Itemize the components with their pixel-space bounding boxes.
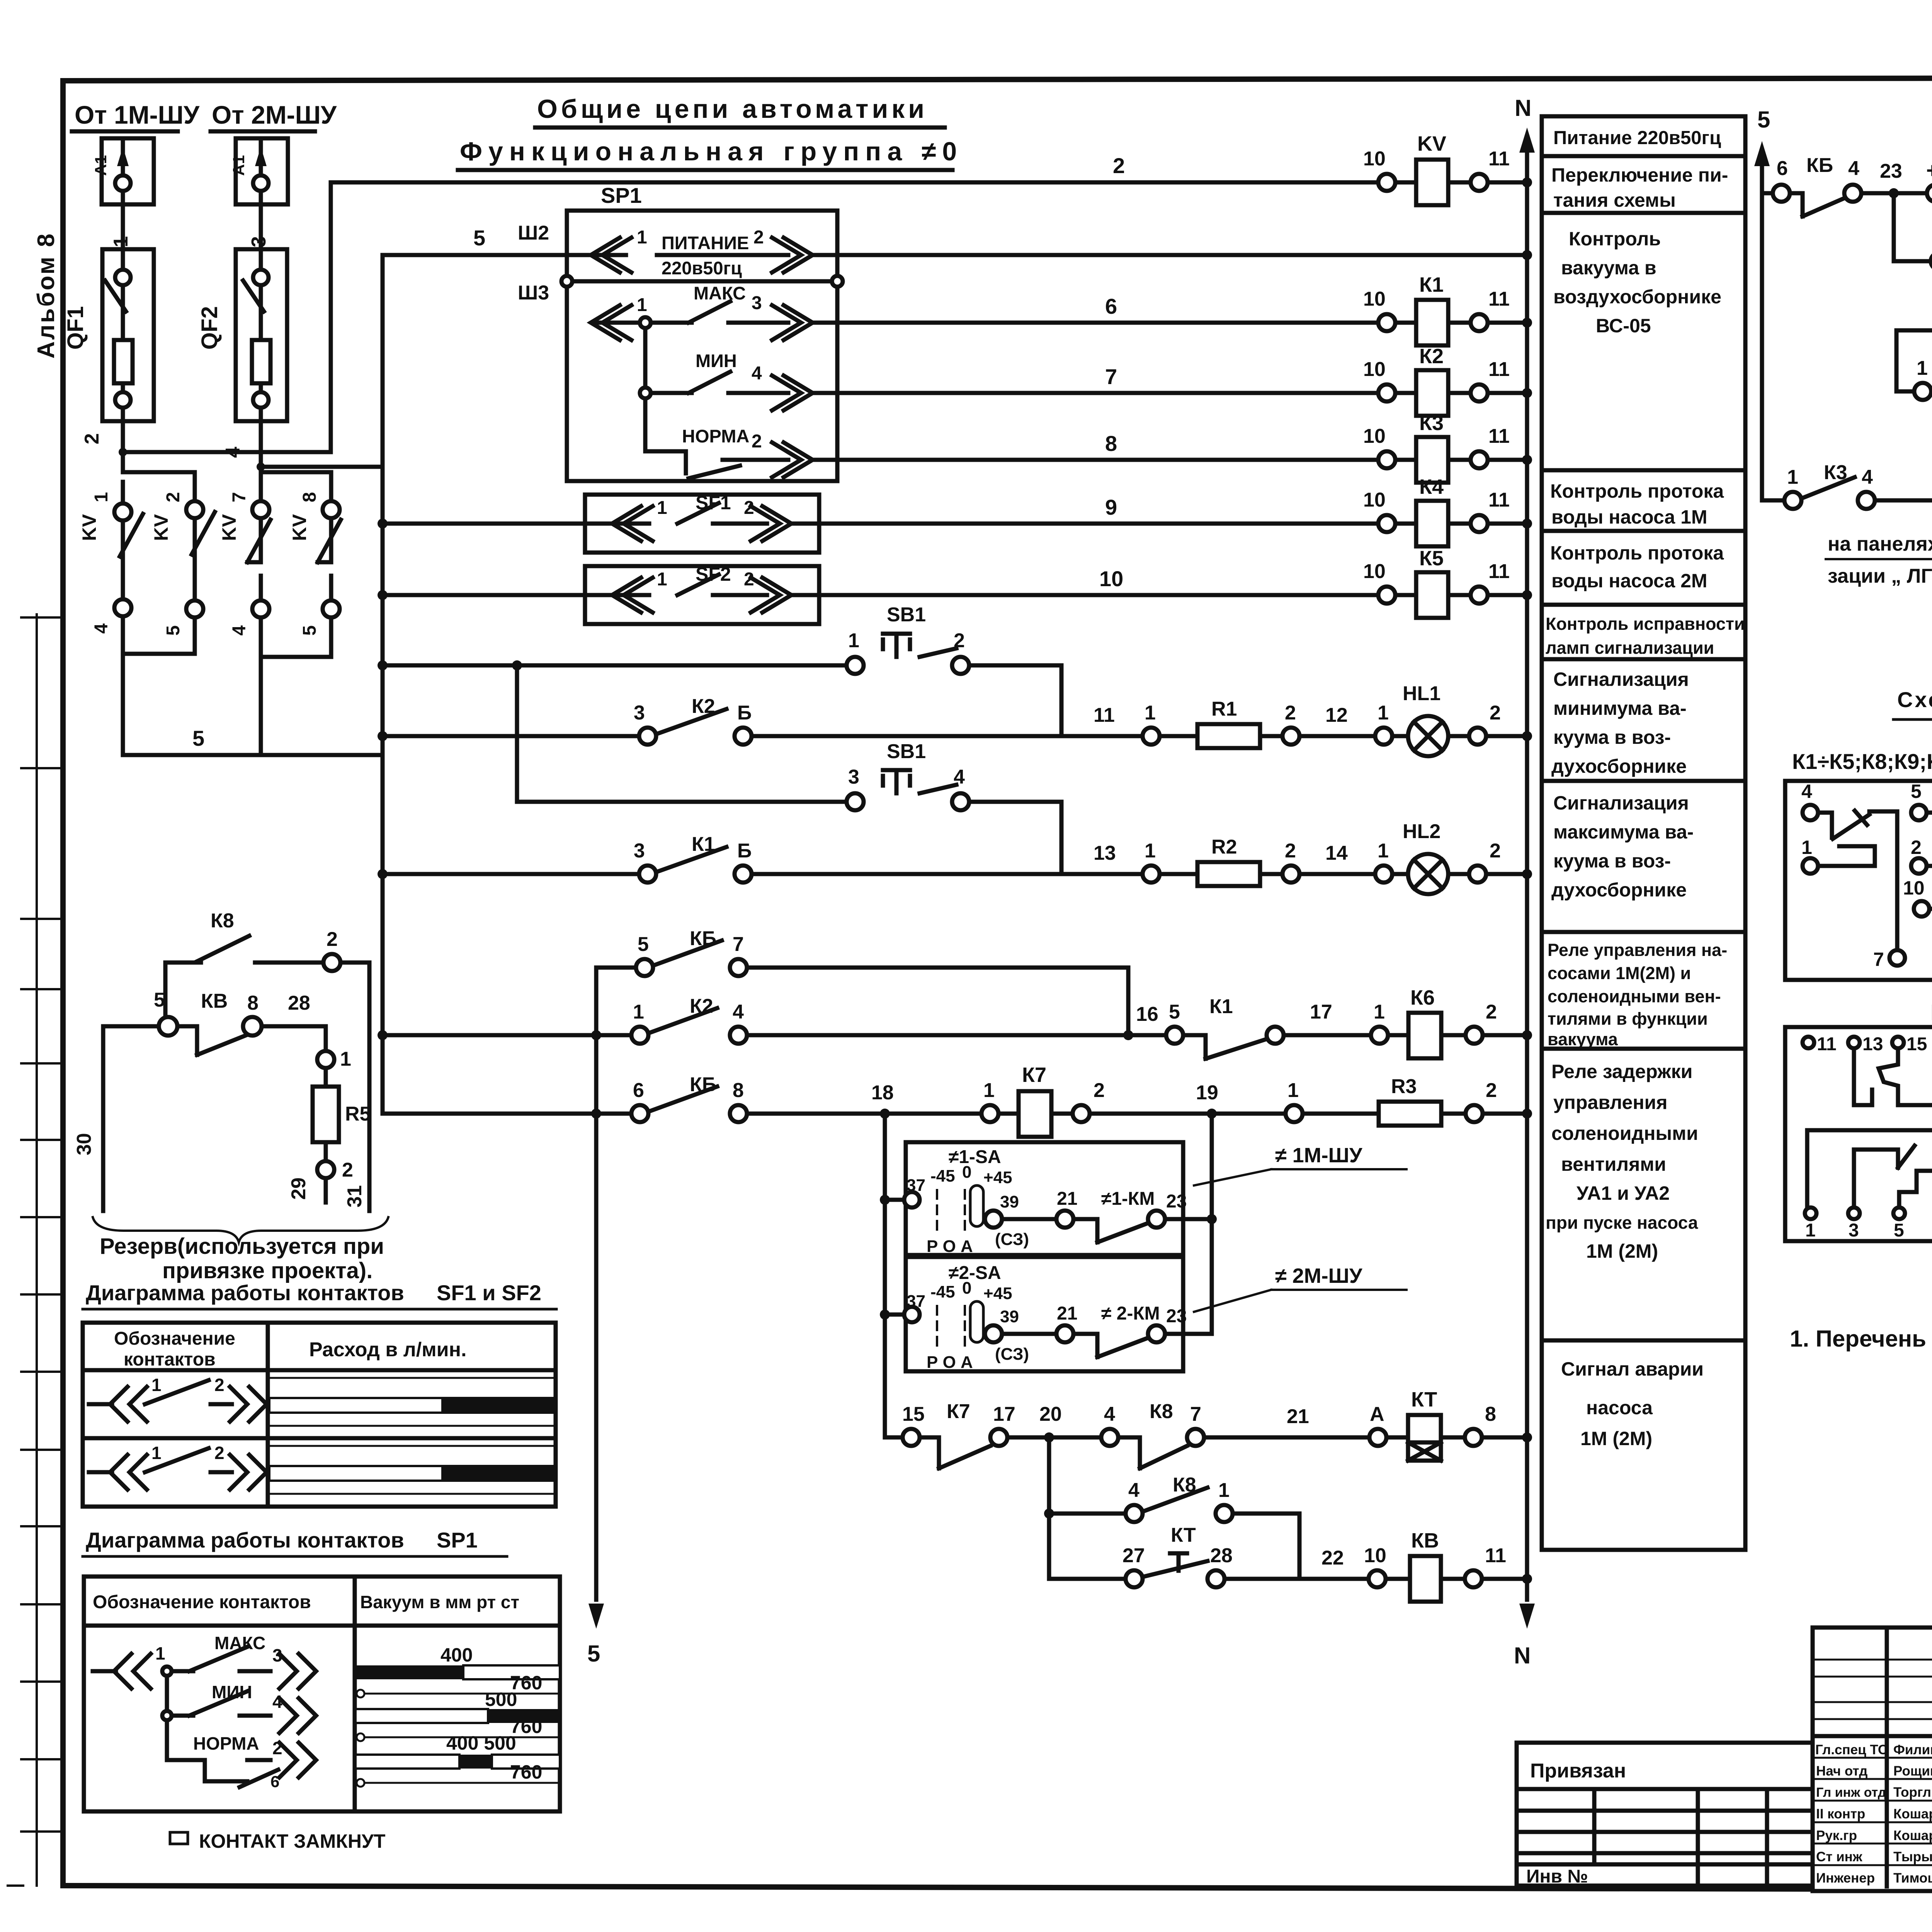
svg-text:11: 11 [1817, 1034, 1837, 1054]
svg-text:тилями в функции: тилями в функции [1548, 1009, 1708, 1029]
svg-text:Б: Б [737, 840, 752, 862]
svg-text:КОНТАКТ ЗАМКНУТ: КОНТАКТ ЗАМКНУТ [199, 1830, 386, 1852]
svg-text:12: 12 [1325, 704, 1348, 726]
relay coil KB [1386, 1577, 1410, 1581]
function column boxes [1542, 116, 1745, 1550]
svg-text:3: 3 [1849, 1220, 1859, 1241]
svg-text:вентилями: вентилями [1561, 1153, 1666, 1175]
svg-text:Кошаринова: Кошаринова [1893, 1828, 1932, 1843]
SF1 box [383, 492, 819, 553]
svg-text:SP1: SP1 [437, 1528, 478, 1552]
flow bar row2 [268, 1446, 556, 1494]
svg-text:Ш2: Ш2 [518, 222, 549, 244]
svg-text:1: 1 [1378, 702, 1389, 724]
svg-text:KV: KV [150, 514, 172, 541]
svg-text:400: 400 [440, 1644, 473, 1666]
rung wire 2 [331, 153, 1387, 182]
margin ticks [8, 614, 63, 1886]
feeder label От 1М-ШУ [72, 100, 200, 131]
heading диаграмма SF [83, 1281, 556, 1309]
rung K2 1-4 / K1 5-8 / coil K6 [378, 986, 1532, 1059]
resistor R1 [1160, 734, 1197, 738]
vertical dividers [1885, 1628, 1889, 1886]
svg-text:16: 16 [1136, 1003, 1158, 1026]
svg-text:Гл инж отд: Гл инж отд [1816, 1785, 1886, 1800]
svg-text:11: 11 [1485, 1544, 1506, 1567]
svg-text:10: 10 [1099, 566, 1123, 591]
svg-text:R3: R3 [1391, 1075, 1417, 1098]
title block [1813, 1628, 1932, 1891]
svg-text:1: 1 [983, 1079, 995, 1102]
node: function column texts [1546, 128, 1745, 1449]
rung wire 10 / relay coil K5 [378, 547, 1532, 618]
svg-text:10: 10 [1363, 425, 1386, 447]
svg-text:5: 5 [154, 989, 165, 1011]
svg-text:К2: К2 [1419, 345, 1444, 368]
svg-text:духосборнике: духосборнике [1551, 755, 1687, 777]
svg-text:-45: -45 [930, 1282, 955, 1301]
upper small rows [1813, 1659, 1932, 1661]
svg-text:Кошаринова: Кошаринова [1893, 1806, 1932, 1821]
svg-text:К1: К1 [1209, 995, 1233, 1018]
relay coil KT [1386, 1435, 1408, 1440]
svg-text:соленоидными вен-: соленоидными вен- [1548, 986, 1721, 1006]
svg-text:6: 6 [270, 1772, 279, 1791]
svg-text:А: А [1370, 1403, 1384, 1425]
pinout box К1-К5 [1785, 781, 1932, 980]
svg-text:2: 2 [1911, 837, 1922, 858]
svg-text:1: 1 [1378, 840, 1389, 862]
svg-text:5: 5 [638, 933, 649, 956]
svg-text:10: 10 [1363, 358, 1386, 381]
svg-text:минимума ва-: минимума ва- [1553, 697, 1687, 719]
svg-text:2: 2 [214, 1375, 224, 1395]
breaker QF1 [63, 249, 154, 421]
connector Ш3 line [518, 276, 843, 304]
pinout box К6 К7 [1785, 1027, 1932, 1241]
svg-text:17: 17 [1310, 1001, 1332, 1023]
svg-text:2: 2 [163, 492, 184, 502]
svg-text:29: 29 [287, 1177, 310, 1200]
svg-text:тания схемы: тания схемы [1553, 189, 1676, 211]
svg-text:N: N [1515, 95, 1531, 121]
svg-text:Диаграмма работы контактов: Диаграмма работы контактов [86, 1281, 404, 1305]
rung KB 6-4 diodes [1762, 145, 1932, 216]
heading диаграмма SP1 [83, 1528, 507, 1556]
svg-text:куума в воз-: куума в воз- [1553, 726, 1671, 748]
wire QF1 bottom to node 2 [121, 408, 125, 472]
svg-text:1: 1 [633, 1001, 644, 1023]
svg-text:SB1: SB1 [887, 740, 926, 763]
text резерв [100, 1234, 384, 1283]
svg-text:вакуума в: вакуума в [1561, 257, 1656, 279]
svg-text:4: 4 [1104, 1403, 1115, 1425]
wire 2 riser [329, 182, 333, 452]
wire 2 horizontal [123, 450, 331, 454]
contact KB NC (5-8) [103, 1024, 160, 1029]
svg-text:Торглышов: Торглышов [1893, 1785, 1932, 1800]
svg-text:1: 1 [1145, 840, 1156, 862]
svg-text:К3: К3 [1419, 412, 1444, 435]
leader на панелях сигнализации [1826, 491, 1932, 587]
svg-text:К1÷К5;К8;К9;KV (РПУ-0-961;РПУ-: К1÷К5;К8;К9;KV (РПУ-0-961;РПУ-0-911) [1792, 749, 1932, 774]
SP1 contact НОРМА [645, 426, 844, 478]
svg-text:Резерв(используется при: Резерв(используется при [100, 1234, 384, 1259]
diode row VD3 VD4 [1894, 193, 1932, 276]
svg-text:К8: К8 [1150, 1400, 1173, 1423]
wire 5 horizontal lower [261, 465, 383, 469]
SP1 contact МИН [640, 350, 844, 410]
connector Ш2 [518, 222, 549, 244]
svg-text:39: 39 [1000, 1307, 1019, 1326]
brace [93, 1217, 388, 1242]
svg-text:QF1: QF1 [63, 306, 88, 350]
svg-text:22: 22 [1321, 1547, 1344, 1569]
svg-text:Альбом 8: Альбом 8 [33, 232, 60, 359]
svg-text:8: 8 [299, 492, 320, 502]
svg-text:10: 10 [1363, 560, 1386, 583]
svg-text:2: 2 [1486, 1001, 1497, 1023]
svg-text:760: 760 [510, 1761, 542, 1783]
svg-text:4: 4 [752, 363, 762, 384]
svg-text:К6;К7 (РПУ-2-360043): К6;К7 (РПУ-2-360043) [1930, 1000, 1932, 1025]
svg-text:УА1 и УА2: УА1 и УА2 [1577, 1182, 1670, 1204]
svg-text:Филин: Филин [1893, 1742, 1932, 1757]
svg-text:11: 11 [1094, 704, 1115, 726]
svg-text:Рук.гр: Рук.гр [1816, 1828, 1857, 1843]
svg-text:1: 1 [1287, 1079, 1299, 1102]
svg-text:4: 4 [733, 1001, 744, 1023]
contact K8 top [163, 963, 168, 1026]
svg-text:17: 17 [993, 1403, 1015, 1425]
svg-text:2: 2 [214, 1443, 224, 1463]
SP1 contact МАКС [591, 283, 844, 340]
rung КБ 6-8 / coil K7 / R3 [383, 1063, 1532, 1137]
rung K7 15-17 / K8 4-7 / coil KT [885, 1388, 1532, 1468]
upper contact group left [1854, 1048, 1932, 1105]
svg-text:2: 2 [327, 928, 338, 951]
svg-text:5: 5 [1169, 1001, 1180, 1023]
svg-text:14: 14 [1325, 842, 1348, 864]
svg-text:QF2: QF2 [197, 306, 222, 350]
title: Общие цепи автоматики [460, 94, 963, 166]
terminal box A1 (2M) [230, 138, 288, 204]
svg-text:Р О А: Р О А [927, 1353, 973, 1372]
svg-text:3: 3 [248, 236, 270, 247]
svg-text:К6: К6 [1410, 986, 1435, 1009]
left bus [381, 467, 385, 1114]
svg-text:5: 5 [1911, 781, 1922, 802]
svg-text:ПИТАНИЕ: ПИТАНИЕ [662, 233, 749, 253]
svg-text:10: 10 [1363, 148, 1386, 170]
svg-text:2: 2 [1285, 702, 1296, 724]
svg-text:соленоидными: соленоидными [1551, 1122, 1698, 1144]
svg-text:Общие цепи автоматики: Общие цепи автоматики [537, 94, 928, 124]
svg-text:7: 7 [229, 492, 250, 502]
svg-text:7: 7 [1873, 949, 1884, 970]
label 2M-ШУ [1194, 1264, 1406, 1312]
svg-text:1: 1 [637, 227, 647, 248]
svg-text:HL2: HL2 [1403, 820, 1440, 843]
svg-text:Тырышкин: Тырышкин [1893, 1849, 1932, 1864]
svg-text:Реле управления на-: Реле управления на- [1548, 940, 1727, 960]
svg-text:R2: R2 [1211, 836, 1237, 858]
svg-text:управления: управления [1553, 1092, 1667, 1113]
svg-text:21: 21 [1287, 1405, 1309, 1428]
svg-text:10: 10 [1363, 288, 1386, 310]
привязан block [1517, 1743, 1813, 1887]
svg-text:воздухосборнике: воздухосборнике [1553, 286, 1721, 308]
svg-text:KV: KV [289, 514, 310, 541]
svg-text:≠1-КМ: ≠1-КМ [1101, 1189, 1155, 1209]
svg-text:Тимошенко: Тимошенко [1893, 1871, 1932, 1886]
svg-text:4: 4 [1801, 781, 1812, 802]
SP1 internal vertical [643, 328, 648, 451]
svg-text:4: 4 [91, 623, 112, 634]
svg-text:7: 7 [1190, 1403, 1201, 1425]
svg-text:11: 11 [1488, 560, 1510, 583]
svg-text:2: 2 [752, 431, 762, 452]
svg-text:8: 8 [247, 992, 259, 1014]
svg-text:SP1: SP1 [601, 183, 642, 207]
relay coil K6 [1388, 1033, 1408, 1037]
svg-text:вакуума: вакуума [1548, 1029, 1618, 1049]
wire 18 vertical [883, 1114, 887, 1437]
svg-text:≠ 2М-ШУ: ≠ 2М-ШУ [1275, 1264, 1363, 1287]
rung K1 3-Б / R2 / HL2 [378, 820, 1532, 894]
svg-text:Переключение пи-: Переключение пи- [1551, 164, 1728, 186]
svg-text:КБ: КБ [1806, 154, 1833, 177]
table SP1 [84, 1577, 560, 1811]
svg-text:1: 1 [155, 1643, 165, 1663]
svg-text:≠ 1М-ШУ: ≠ 1М-ШУ [1275, 1144, 1363, 1167]
heading схемы расположения [1893, 687, 1932, 719]
relay coil KV [1363, 132, 1532, 205]
rung K2 3-Б / R1 / HL1 [378, 682, 1532, 756]
svg-text:5: 5 [299, 625, 320, 636]
flow bar row1 [268, 1378, 556, 1426]
svg-text:Контроль протока: Контроль протока [1550, 480, 1724, 502]
svg-text:1: 1 [1805, 1220, 1816, 1241]
svg-text:1: 1 [1801, 837, 1812, 858]
resistor R2 [1160, 872, 1197, 876]
svg-text:27: 27 [1122, 1544, 1145, 1567]
svg-text:N: N [1514, 1643, 1531, 1668]
svg-text:МАКС: МАКС [694, 283, 746, 303]
svg-text:воды насоса 1М: воды насоса 1М [1551, 506, 1708, 528]
svg-text:воды насоса 2М: воды насоса 2М [1551, 570, 1708, 592]
svg-text:R1: R1 [1211, 698, 1237, 720]
svg-text:1: 1 [657, 498, 667, 518]
svg-text:4: 4 [222, 447, 244, 458]
svg-text:18: 18 [871, 1082, 894, 1104]
svg-text:От 2М-ШУ: От 2М-ШУ [212, 100, 337, 129]
SP1 box [567, 183, 837, 481]
svg-text:2: 2 [1490, 840, 1501, 862]
svg-text:5: 5 [163, 625, 184, 636]
svg-text:К1: К1 [1419, 273, 1444, 296]
selector box 2M-SA [880, 1257, 1212, 1372]
svg-text:Ст инж: Ст инж [1816, 1849, 1863, 1864]
svg-text:8: 8 [1105, 431, 1117, 456]
svg-text:10: 10 [1903, 877, 1925, 899]
svg-text:37: 37 [906, 1292, 925, 1311]
svg-text:11: 11 [1488, 489, 1510, 511]
svg-text:3: 3 [752, 293, 762, 313]
svg-text:Инв №: Инв № [1526, 1866, 1588, 1887]
node 4 [257, 463, 265, 471]
svg-text:1: 1 [1145, 702, 1156, 724]
svg-text:6: 6 [1777, 157, 1788, 180]
svg-text:21: 21 [1057, 1189, 1077, 1209]
svg-text:К5: К5 [1419, 547, 1444, 570]
svg-text:Сигнализация: Сигнализация [1553, 668, 1689, 690]
svg-text:К4: К4 [1419, 475, 1444, 498]
svg-text:Контроль: Контроль [1569, 228, 1661, 250]
selector box 1M-SA [880, 1142, 1217, 1256]
svg-text:зации „ ЛГ”: зации „ ЛГ” [1828, 565, 1932, 587]
resistor R3 [1303, 1112, 1379, 1116]
svg-text:500: 500 [485, 1689, 517, 1710]
svg-text:13: 13 [1094, 842, 1116, 864]
svg-text:2: 2 [342, 1159, 353, 1181]
svg-text:10: 10 [1364, 1544, 1386, 1567]
svg-text:0: 0 [962, 1279, 971, 1298]
svg-text:4: 4 [1128, 1479, 1139, 1502]
svg-text:+: + [1926, 158, 1932, 182]
svg-text:на панелях сигнали-: на панелях сигнали- [1828, 533, 1932, 555]
rung wire 9 / relay coil K4 [378, 475, 1532, 546]
svg-text:23: 23 [1880, 160, 1902, 182]
svg-text:19: 19 [1196, 1082, 1218, 1104]
svg-text:ВС-05: ВС-05 [1596, 315, 1651, 337]
svg-text:Инженер: Инженер [1816, 1871, 1875, 1886]
svg-text:Контроль исправности: Контроль исправности [1546, 614, 1745, 634]
svg-text:К7: К7 [947, 1400, 970, 1423]
terminal box A1 (1M) [92, 138, 154, 204]
svg-text:Вакуум в мм рт ст: Вакуум в мм рт ст [360, 1592, 519, 1612]
svg-text:Рощин: Рощин [1893, 1764, 1932, 1779]
svg-text:ламп сигнализации: ламп сигнализации [1546, 638, 1714, 658]
svg-text:1. Перечень аппаратуры см ли: 1. Перечень аппаратуры см лист ЭА1-31 [1790, 1326, 1932, 1352]
svg-text:7: 7 [733, 933, 744, 956]
svg-text:20: 20 [1039, 1403, 1062, 1425]
svg-text:Сигнал аварии: Сигнал аварии [1561, 1358, 1704, 1380]
svg-text:SB1: SB1 [887, 604, 926, 626]
rung КБ 5-7 [596, 927, 1128, 1035]
svg-text:Нач отд: Нач отд [1816, 1764, 1867, 1779]
svg-text:От 1М-ШУ: От 1М-ШУ [75, 100, 200, 129]
svg-text:1: 1 [151, 1375, 162, 1395]
svg-text:НОРМА: НОРМА [193, 1733, 259, 1753]
rung wire 6 / relay coil K1 [844, 273, 1532, 345]
wire QF2 top [259, 191, 263, 270]
svg-text:при пуске насоса: при пуске насоса [1546, 1213, 1698, 1233]
svg-text:0: 0 [962, 1163, 971, 1182]
wire 5 to SP1 [383, 253, 567, 257]
svg-text:1: 1 [110, 236, 132, 247]
svg-text:5: 5 [192, 726, 204, 750]
svg-text:НОРМА: НОРМА [682, 426, 749, 446]
reserve circuit K8 KB R5 [73, 910, 388, 1242]
svg-text:Питание 220в50гц: Питание 220в50гц [1553, 128, 1721, 148]
svg-text:-45: -45 [930, 1167, 955, 1185]
wire 5 riser [381, 255, 385, 467]
left leg 30 [101, 1026, 105, 1211]
svg-text:31: 31 [344, 1185, 366, 1207]
svg-text:1М (2М): 1М (2М) [1580, 1428, 1652, 1449]
svg-text:3: 3 [634, 840, 645, 862]
svg-text:39: 39 [1000, 1192, 1019, 1211]
svg-text:Расход в л/мин.: Расход в л/мин. [309, 1338, 467, 1361]
svg-text:9: 9 [1105, 495, 1117, 519]
svg-text:1: 1 [340, 1048, 351, 1070]
contact symbol row2 [89, 1443, 267, 1490]
svg-text:11: 11 [1488, 148, 1510, 170]
lower contact group left [1854, 1146, 1932, 1207]
contact group 2 [1911, 781, 1932, 970]
svg-text:3: 3 [848, 766, 859, 788]
right bus 5 [1754, 107, 1770, 500]
svg-text:КТ: КТ [1171, 1524, 1196, 1546]
svg-text:2: 2 [954, 629, 965, 652]
svg-text:К7: К7 [1022, 1063, 1046, 1087]
rung wire 8 / relay coil K3 [844, 412, 1532, 483]
rung KT 27-28 / coil KB [1049, 1524, 1532, 1602]
breaker QF2 [197, 249, 287, 421]
svg-text:1: 1 [1787, 466, 1798, 488]
svg-text:1М (2М): 1М (2М) [1586, 1240, 1658, 1262]
svg-text:KV: KV [218, 514, 240, 541]
svg-text:КВ: КВ [1411, 1529, 1439, 1552]
svg-text:2: 2 [1285, 840, 1296, 862]
contact symbol row1 [89, 1375, 267, 1422]
svg-text:11: 11 [1488, 288, 1510, 310]
svg-text:Р О А: Р О А [927, 1237, 973, 1256]
album margin text [33, 232, 60, 359]
svg-text:Функциональная группа ≠0: Функциональная группа ≠0 [460, 137, 963, 166]
svg-text:2: 2 [1490, 702, 1501, 724]
svg-text:220в50гц: 220в50гц [662, 258, 742, 278]
rung питание to N [844, 250, 1532, 260]
svg-text:1: 1 [657, 569, 667, 590]
svg-text:4: 4 [229, 625, 250, 636]
SP1 contact ПИТАНИЕ [567, 227, 844, 278]
svg-text:4: 4 [954, 766, 965, 788]
svg-text:2: 2 [753, 227, 764, 248]
svg-text:Б: Б [737, 702, 752, 724]
coil 10-11 [1903, 877, 1932, 941]
wire QF1 top [121, 191, 125, 270]
svg-text:Контроль протока: Контроль протока [1550, 542, 1724, 564]
wire QF2 bottom to node 4 [259, 408, 263, 467]
rung K8 4-1 [1044, 1474, 1299, 1579]
svg-text:KV: KV [1417, 132, 1446, 155]
svg-text:Обозначение: Обозначение [114, 1328, 235, 1349]
svg-text:A1: A1 [230, 155, 248, 176]
left bus 2 [594, 968, 599, 1600]
svg-text:+45: +45 [983, 1168, 1012, 1187]
svg-text:контактов: контактов [124, 1349, 216, 1370]
svg-text:28: 28 [1210, 1544, 1233, 1567]
svg-text:сосами 1М(2М) и: сосами 1М(2М) и [1548, 963, 1691, 983]
svg-text:духосборнике: духосборнике [1551, 879, 1687, 901]
name rows [1813, 1757, 1932, 1759]
МАКС branch [172, 1669, 193, 1673]
svg-text:+45: +45 [983, 1284, 1012, 1303]
table SF1 SF2 [83, 1323, 556, 1507]
svg-text:5: 5 [587, 1641, 600, 1667]
